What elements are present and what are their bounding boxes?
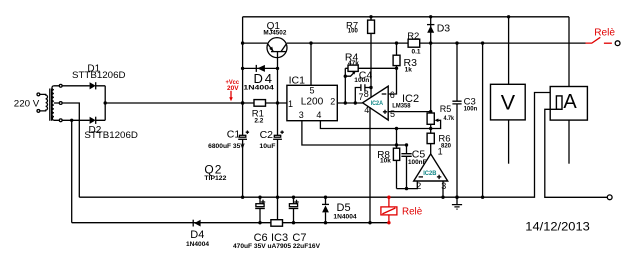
diode D5 <box>322 197 329 223</box>
transformer T1 secondary winding with center tap <box>52 84 62 121</box>
svg-text:470uF 35V uA7905 22uF16V: 470uF 35V uA7905 22uF16V <box>233 243 321 250</box>
op-amp IC2A <box>363 86 389 120</box>
resistor R3 <box>393 43 400 68</box>
node D3 bottom / output wire <box>429 41 432 44</box>
svg-text:D5: D5 <box>337 202 351 214</box>
wire bridge bottom <box>62 119 105 121</box>
node D5 top <box>324 196 327 199</box>
svg-text:100n: 100n <box>464 107 478 113</box>
node IC3 ground pin rail A <box>276 196 279 199</box>
node C4 / pin8 junction <box>369 86 372 89</box>
svg-text:6800uF 35V: 6800uF 35V <box>208 143 245 150</box>
wire IC1 pin2 to op-amp output <box>337 102 362 104</box>
diode D2 <box>90 117 96 124</box>
svg-text:5: 5 <box>310 86 315 96</box>
node pin5 / pin3-wire junction <box>395 143 398 146</box>
terminal output minus (circle) <box>607 195 612 200</box>
wire ground rail A <box>79 93 559 198</box>
wire IC1 pin4 down and right <box>320 121 430 129</box>
svg-text:R5: R5 <box>440 104 452 114</box>
terminal output plus (circle) <box>615 41 620 46</box>
svg-text:IC1: IC1 <box>289 74 306 86</box>
svg-text:10k: 10k <box>380 158 391 165</box>
node R4 wiper tap <box>344 75 347 78</box>
node R5/R6 junction <box>429 127 432 130</box>
diode D1 <box>90 82 96 89</box>
wire output line from Q1 collector <box>287 42 586 44</box>
node pin5 / pin4-wire junction <box>395 127 398 130</box>
capacitor C6 <box>255 197 265 223</box>
node ground symbol tap <box>455 196 458 199</box>
resistor R6 <box>427 124 434 154</box>
wire D4 horizontal <box>243 67 278 69</box>
node C6 top <box>258 196 261 199</box>
+Vcc arrow (red) <box>229 91 233 102</box>
node Q1 base / D4 junction <box>276 67 279 70</box>
trimmer R4 <box>345 65 358 103</box>
node pin5 junction <box>309 41 312 44</box>
node C5 bottom junction <box>405 187 408 190</box>
ammeter A <box>550 17 587 164</box>
svg-text:D4: D4 <box>190 229 204 241</box>
svg-text:10uF: 10uF <box>259 143 275 150</box>
op-amp IC2B <box>414 154 448 181</box>
wire IC1 pin3 down and right <box>302 121 407 145</box>
voltmeter V <box>491 17 526 164</box>
diode D3 <box>427 17 434 43</box>
node C1 top <box>241 101 244 104</box>
node C1 bottom rail A <box>241 196 244 199</box>
node C6 bottom <box>258 221 261 224</box>
node sense bottom <box>481 196 484 199</box>
capacitor C1 <box>238 103 249 197</box>
transistor Q1 <box>267 38 287 58</box>
node R3/R4/pin6 junction <box>395 67 398 70</box>
svg-text:L200: L200 <box>301 96 324 108</box>
wire +V rail from bridge to R1 <box>105 102 254 104</box>
wire pin4-wire to pin3-wire vertical <box>396 129 398 146</box>
svg-text:2.2: 2.2 <box>254 117 263 124</box>
svg-text:100: 100 <box>348 28 359 34</box>
wire output sense down to ground rail <box>482 43 484 197</box>
node D3 top <box>429 15 432 18</box>
svg-text:IC2B: IC2B <box>423 171 437 177</box>
capacitor C4 <box>355 84 371 103</box>
svg-text:1N4004: 1N4004 <box>186 241 209 248</box>
plus input IC2A <box>383 110 387 114</box>
svg-text:2: 2 <box>330 97 335 107</box>
relay coil Rele (red) <box>381 196 397 225</box>
wire left input vertical <box>242 17 244 103</box>
wire IC2A pin5 to R5 line <box>388 111 431 113</box>
diode D4 <box>256 65 265 72</box>
svg-text:0.1: 0.1 <box>412 49 421 56</box>
transformer T1 primary winding <box>37 93 48 112</box>
wire IC1 pin5 up to output line <box>310 43 312 85</box>
svg-text:1N4004: 1N4004 <box>333 214 357 221</box>
svg-text:R2: R2 <box>407 31 419 42</box>
svg-text:3: 3 <box>441 181 446 191</box>
svg-text:A: A <box>563 91 577 113</box>
svg-text:8: 8 <box>364 89 369 99</box>
svg-text:4: 4 <box>364 105 369 115</box>
node Q1 emitter tap <box>241 41 244 44</box>
node C7 top <box>292 196 295 199</box>
transformer T1 core <box>50 89 52 121</box>
svg-text:C1: C1 <box>227 129 241 141</box>
node sense top <box>481 41 484 44</box>
wire IC2A pin4 down to rail B <box>369 107 371 223</box>
capacitor C2 <box>273 131 284 140</box>
node C4 branch on pin2 wire <box>354 101 357 104</box>
IC1 L200 box <box>287 85 337 120</box>
node pin5 / R5 line junction <box>429 110 432 113</box>
relay contact (red) top right <box>586 37 612 43</box>
regulator IC3 box <box>271 220 283 227</box>
svg-text:14/12/2013: 14/12/2013 <box>525 220 590 234</box>
resistor R2 <box>408 39 420 47</box>
svg-text:Relè: Relè <box>402 205 422 217</box>
minus input IC2A <box>382 93 387 95</box>
wire center tap down to ground rail <box>62 103 79 197</box>
node C3 / ground rail <box>455 196 458 199</box>
svg-text:4: 4 <box>316 110 321 120</box>
svg-text:MJ4502: MJ4502 <box>263 29 286 36</box>
svg-text:1k: 1k <box>405 66 413 73</box>
wire R1 to IC1 <box>266 102 287 104</box>
svg-text:100nF: 100nF <box>408 159 427 166</box>
node V meter top rail <box>507 15 510 18</box>
node C7 bottom <box>292 221 295 224</box>
svg-text:LM358: LM358 <box>392 102 411 109</box>
svg-text:5: 5 <box>390 109 395 119</box>
svg-text:100n: 100n <box>354 77 369 84</box>
svg-text:C2: C2 <box>260 129 274 141</box>
wire bridge right vertical <box>104 86 106 121</box>
wire bridge top <box>62 85 105 87</box>
svg-text:IC2A: IC2A <box>371 101 384 107</box>
svg-text:3: 3 <box>299 110 304 120</box>
svg-text:V: V <box>501 90 516 114</box>
wire pin6 vertical <box>388 68 396 94</box>
resistor R7 <box>368 17 375 98</box>
capacitor C7 <box>289 197 299 223</box>
svg-text:D3: D3 <box>437 22 451 34</box>
trimmer R5 <box>427 43 441 128</box>
node D4 cathode tap <box>241 67 244 70</box>
svg-text:1N4004: 1N4004 <box>243 85 274 92</box>
capacitor C3 <box>452 43 461 205</box>
svg-text:220 V: 220 V <box>14 99 40 110</box>
node pin3 rail A <box>441 196 444 199</box>
node R7 top rail <box>369 15 372 18</box>
resistor R1 <box>254 100 266 107</box>
wire bottom rail B <box>72 222 389 224</box>
svg-text:1: 1 <box>288 99 293 109</box>
node pin4 rail B junction <box>368 221 371 224</box>
wire IC2B pin3 to ground rail <box>442 181 444 197</box>
node C5 top junction <box>405 143 408 146</box>
node C3 top <box>455 41 458 44</box>
svg-text:TIP122: TIP122 <box>204 175 226 182</box>
resistor R8 <box>393 145 399 189</box>
node +V rail tap <box>241 101 244 104</box>
node bridge output junction <box>104 101 107 104</box>
svg-text:47k: 47k <box>348 60 359 67</box>
wire Q1 emitter <box>243 42 268 44</box>
svg-text:6: 6 <box>390 90 395 100</box>
svg-text:20V: 20V <box>227 85 239 92</box>
wire negative drop to bottom rail <box>71 120 73 222</box>
wire Q1 base drop <box>277 52 279 220</box>
node Q1 base rail junction <box>276 101 279 104</box>
wire IC2B pin2 <box>397 181 418 189</box>
node D2 wire junction <box>70 119 73 122</box>
svg-text:4.7k: 4.7k <box>444 116 455 122</box>
wire top supply rail <box>243 16 569 18</box>
svg-text:Relè: Relè <box>594 26 615 38</box>
diode D4 (bottom rail) <box>193 220 200 227</box>
plus input IC2B <box>437 175 441 179</box>
wire shunt bottom to output terminal <box>545 109 608 197</box>
svg-text:STTB1206D: STTB1206D <box>72 70 126 81</box>
node R4 branch on pin2 wire <box>344 101 347 104</box>
svg-text:1: 1 <box>438 146 443 156</box>
node R3 top <box>395 41 398 44</box>
ground symbol <box>452 205 462 210</box>
node D5 bottom <box>324 221 327 224</box>
svg-text:STTB1206D: STTB1206D <box>84 130 138 141</box>
wire R4 right to R3 bottom <box>358 67 396 69</box>
minus input IC2B <box>419 176 423 178</box>
capacitor C5 <box>401 145 411 189</box>
